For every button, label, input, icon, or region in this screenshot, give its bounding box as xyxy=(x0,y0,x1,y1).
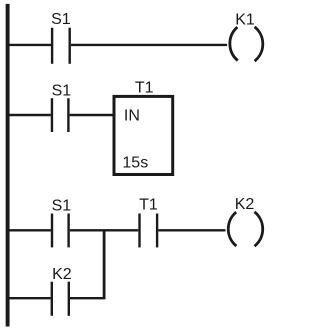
svg-text:T1: T1 xyxy=(135,80,154,97)
node: branch junction vertical xyxy=(103,230,106,297)
svg-text:15s: 15s xyxy=(122,155,148,172)
wire rung3: T1 to K2 xyxy=(158,229,225,231)
svg-text:T1: T1 xyxy=(139,196,158,213)
left power rail xyxy=(6,4,10,327)
contact S1 (rung 1) xyxy=(51,11,71,64)
coil K1 xyxy=(230,11,263,61)
wire rung2: rail to S1 xyxy=(8,114,51,116)
timer T1 xyxy=(114,80,173,175)
coil K2 xyxy=(228,196,262,246)
wire branch: rail to K2 contact xyxy=(8,297,51,299)
wire branch: K2 to junction xyxy=(70,297,106,299)
svg-text:S1: S1 xyxy=(52,198,72,215)
contact T1 xyxy=(139,196,158,247)
svg-text:K2: K2 xyxy=(235,196,255,213)
contact S1 (rung 3) xyxy=(52,198,72,248)
wire rung3: S1 to contact T1 (through branch junction) xyxy=(70,229,139,231)
wire rung1: S1 to K1 xyxy=(71,44,227,46)
contact S1 (rung 2) xyxy=(52,83,72,132)
svg-text:K1: K1 xyxy=(235,11,255,28)
contact K2 xyxy=(52,266,72,316)
wire rung1: rail to S1 xyxy=(8,44,51,46)
svg-text:K2: K2 xyxy=(52,266,72,283)
svg-text:IN: IN xyxy=(124,107,140,124)
svg-text:S1: S1 xyxy=(51,11,71,28)
wire rung2: S1 to timer T1 input xyxy=(70,114,114,116)
svg-text:S1: S1 xyxy=(52,83,72,100)
wire rung3: rail to S1 xyxy=(8,229,51,231)
